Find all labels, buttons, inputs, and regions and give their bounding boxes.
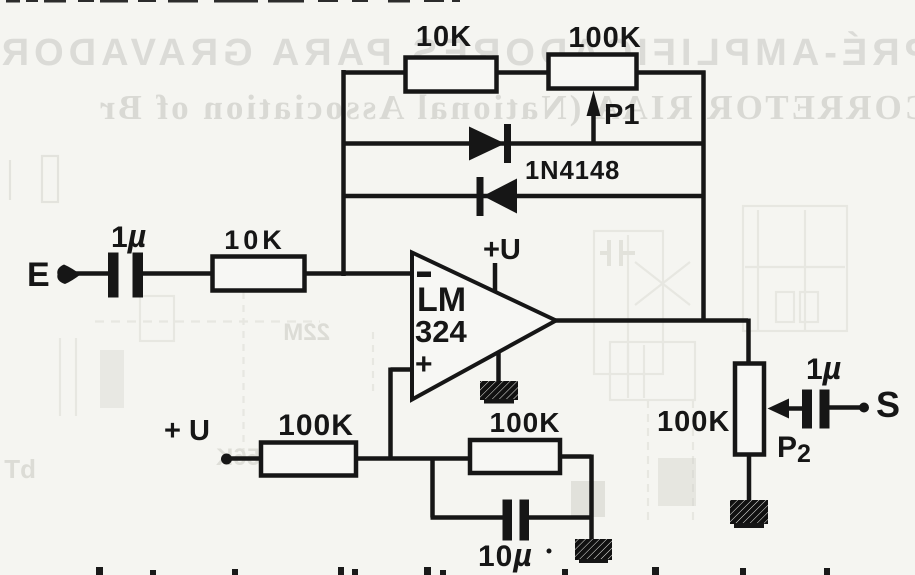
- svg-text:10K: 10K: [416, 21, 472, 53]
- svg-text:1N4148: 1N4148: [525, 157, 620, 185]
- wire input row: [74, 271, 113, 276]
- diode D2 (pointing left): [477, 177, 518, 216]
- wire P1 wiper vertical: [591, 108, 596, 146]
- ground G1 (op-amp pin): [480, 381, 518, 404]
- svg-text:22M: 22M: [283, 319, 330, 346]
- input terminal arrow: [57, 265, 80, 285]
- ground G3 (under P2): [730, 500, 768, 528]
- wire right feedback vertical: [701, 71, 706, 321]
- svg-text:100K: 100K: [278, 409, 354, 442]
- svg-text:10K: 10K: [224, 225, 286, 255]
- svg-text:100K: 100K: [657, 406, 730, 438]
- faint left margin bars: [10, 156, 58, 202]
- svg-text:100K: 100K: [568, 22, 641, 54]
- svg-text:bT: bT: [4, 454, 36, 484]
- wire op-amp ground pin: [496, 352, 501, 382]
- svg-text:P: P: [777, 431, 797, 464]
- wire +U dot to R4: [228, 456, 263, 461]
- svg-text:+: +: [415, 348, 433, 381]
- wire cap C1 to resistor R3: [140, 271, 215, 276]
- svg-text:P1: P1: [604, 99, 639, 131]
- wire between top resistors: [495, 70, 550, 75]
- capacitor C3 1u (output): [802, 390, 830, 429]
- wire top horizontal right segment: [636, 70, 706, 75]
- +U terminal dot: [221, 454, 232, 465]
- potentiometer P1 100K (top): [549, 22, 642, 131]
- faint bleed-through shapes layer: [60, 206, 847, 525]
- svg-text:1µ: 1µ: [111, 218, 146, 254]
- terminal S dot: [859, 403, 869, 413]
- svg-text:100K: 100K: [490, 407, 561, 438]
- resistor R5 100K (feedback): [470, 407, 560, 473]
- svg-text:2: 2: [797, 440, 811, 468]
- capacitor C1 1u: [108, 253, 143, 298]
- wire cap C2 branch vertical: [430, 457, 435, 518]
- wire diode D1 row: [342, 141, 704, 146]
- wire op-amp output: [554, 318, 748, 323]
- op-amp U1 LM324: [412, 234, 556, 400]
- svg-text:1µ: 1µ: [806, 350, 841, 386]
- wire op-amp +U pin: [493, 263, 498, 292]
- dot after 10u: [547, 549, 552, 554]
- resistor R4 100K: [261, 409, 356, 476]
- svg-text:10µ: 10µ: [478, 537, 533, 573]
- wire top horizontal left segment: [342, 70, 409, 75]
- wire output corner down to P2: [746, 319, 751, 367]
- svg-text:324: 324: [415, 314, 467, 349]
- wire P2 wiper to cap C3: [786, 406, 803, 411]
- wire R5 right to corner: [558, 454, 592, 459]
- resistor R1 10K (top): [406, 21, 497, 92]
- wire diode D2 row: [342, 194, 704, 199]
- wire cap C3 to S terminal: [823, 405, 861, 410]
- svg-text:+ U: + U: [164, 415, 210, 447]
- svg-text:+U: +U: [483, 234, 521, 266]
- wire top loop left vertical: [341, 70, 346, 276]
- wire cap C2 branch horizontal left: [431, 515, 508, 520]
- diode D1 (pointing right): [469, 124, 511, 163]
- wire plus-input vertical down: [388, 368, 393, 460]
- wire right vertical down to ground G2: [589, 455, 594, 543]
- cut-off text fragments top edge: [6, 0, 460, 3]
- cut-off text fragments bottom edge: [96, 567, 830, 575]
- capacitor C2 10u: [503, 500, 530, 541]
- ground G2 (bottom middle): [575, 539, 612, 563]
- svg-text:S: S: [876, 384, 900, 425]
- resistor R3 10K (input): [213, 225, 305, 291]
- wire R3 to op-amp: [301, 271, 412, 276]
- wire op-amp plus input: [391, 367, 414, 372]
- svg-text:E: E: [27, 256, 50, 294]
- wire P2 bottom to ground G3: [747, 455, 752, 503]
- wire R4 to R5: [354, 456, 472, 461]
- wire cap C2 to right vertical: [525, 515, 593, 520]
- potentiometer P2 100K: [657, 364, 811, 469]
- bleed-through mirrored title line 2: [0, 88, 915, 128]
- bleed-through mirrored title line 1: [0, 32, 915, 75]
